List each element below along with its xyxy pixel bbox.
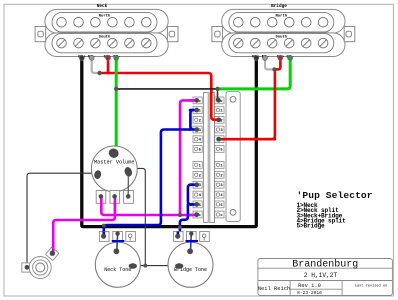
selector switch SW1: right pole terminal c row y214.5 [215,211,224,218]
pickup Neck: north bobbin [52,12,157,32]
pickup Bridge: terminal SF+ [278,56,283,61]
wire thin ground volume casing to tone casings [129,168,146,265]
svg-text:Neck Tone: Neck Tone [104,267,131,273]
node junction blue B over ground bus [178,225,182,229]
selector switch SW1: left pole terminal 2 row y174.8 [193,171,202,178]
wire bridge red SF+ drop [275,58,281,69]
pickup Neck: terminal SF+ [106,56,111,61]
node solder left lower O3 [194,182,199,187]
selector switch SW1: left pole terminal 3 row y184.7 [193,181,202,188]
svg-text:South: South [275,34,287,39]
pickup Bridge: cover [222,9,345,56]
node junction magenta M1/M2 [178,213,182,217]
wire neck gray NF- to series junction [92,58,100,73]
output jack J1: tip solder blob [50,251,55,256]
wire blue B switch O3-O5 jumper [188,185,197,205]
node solder left Cc top [194,98,199,103]
wire magenta overlay inside lug2 box [114,196,117,204]
wire magenta stub into switch bottom Cc [190,214,197,217]
title block: frame [258,259,393,296]
wire blue overlay into Bridge Tone lug1 [177,232,180,236]
wire bridge red hot to switch O4 [219,69,275,139]
selector switch SW1: left pole terminal 5 row y148.9 [193,146,202,153]
potentiometer Neck Tone: lug3 open hole [128,234,132,238]
potentiometer Master Volume: solder blob right (ground link) [123,166,133,177]
wire black jumper neck-green node to switch common [116,88,217,90]
wire blue stub into switch lower O3 [190,183,197,186]
pickup Bridge: terminal SS- [288,56,293,61]
pickup Bridge: north pole pieces [234,17,328,27]
selector switch SW1: left pole terminal 1 row y164.9 [193,162,202,169]
pickup Neck: north pole pieces [57,17,151,27]
pickup Neck: right mounting ear [167,27,178,42]
pickup Neck: terminal NF- [89,56,94,61]
pickup Neck: terminal SS- [114,56,119,61]
potentiometer Master Volume: lug2 terminal [112,194,117,199]
selector switch SW1: right pole terminal 1 row y110.1 [215,107,224,114]
potentiometer Neck Tone: casing ground blob [129,263,137,269]
capacitor on Neck Tone lug2 to casing [115,231,119,235]
svg-text:8-23-2016: 8-23-2016 [297,290,322,296]
node junction bridge coil series [272,67,276,71]
potentiometer Bridge Tone: lug3 open hole [202,234,206,238]
wire drop to switch Cc terminal [217,89,219,100]
selector switch SW1: wafer bars [204,93,215,223]
svg-text:Neil Reich: Neil Reich [258,286,290,292]
wire magenta M3 volume lug2 to output jack [53,196,115,253]
wire magenta M1 switch top Cc to bottom bus [180,100,197,215]
potentiometer Neck Tone: lug1 solder blob [101,234,106,239]
pickup Bridge: left mounting ear [212,27,223,42]
wire neck black NS+ ground to bus [82,58,256,227]
potentiometer Master Volume: lug1 terminal [99,194,104,199]
selector switch SW1: left pole terminal c row y100.4 [193,97,202,104]
wire blue A switch O1-O3 jumper to neck tone [190,110,196,129]
pickup Bridge: terminal NF- [263,56,268,61]
wire magenta stub into switch top Cc [190,99,197,102]
wire bridge green SS- to common bus [218,58,291,89]
pickup Neck: south bobbin [52,33,157,52]
selector switch SW1: left pole terminal 5 row y204.4 [193,201,202,208]
wire blue A to neck tone lug [104,130,191,236]
wire blue overlay into Neck Tone lug1 [103,232,106,236]
node solder left O1 [194,108,199,113]
svg-text:Brandenburg: Brandenburg [292,259,358,271]
wire red stub into switch O4 [219,138,275,141]
node junction neck green / black jumper [114,87,118,91]
potentiometer Bridge Tone: lug boxes [174,232,210,242]
selector switch SW1: left pole terminal c row y214.5 [193,211,202,218]
pickup Bridge: right mounting ear [344,27,355,42]
node solder right O2 [217,118,222,123]
wire bridge gray NF- to series junction [265,58,275,69]
wire neck green SS- to volume casing [115,58,118,153]
svg-text:2 H,1V,2T: 2 H,1V,2T [304,272,338,279]
svg-text:North: North [275,13,287,18]
selector switch SW1: right pole terminal 4 row y139.2 [215,136,224,143]
selector switch SW1: left pole terminal 4 row y139.2 [193,136,202,143]
wire magenta M2 volume lug1 to switch bottom Cc [101,196,196,215]
svg-text:5>Bridge: 5>Bridge [297,223,326,230]
node solder right Cc top [216,98,221,103]
wire thin ground between tone pot casings [133,265,177,267]
potentiometer Master Volume: lug3 to casing link [127,172,129,197]
potentiometer Bridge Tone: casing ground blob [175,263,183,269]
svg-text:Neck: Neck [97,4,108,9]
potentiometer Master Volume: lug3 terminal [126,194,131,199]
node solder left O3 [194,127,199,132]
selector switch SW1: mounting plate [226,92,240,222]
pickup Neck: terminal NS+ [79,56,84,61]
svg-text:South: South [99,34,111,39]
wire magenta overlay into jack tip lug [52,246,55,252]
potentiometer Master Volume: solder blob left (jack tip wire) [93,170,102,180]
node junction neck coil series [97,71,101,75]
selector switch SW1: left pole terminal 2 row y119.8 [193,116,202,123]
selector switch SW1: right pole terminal 5 row y148.9 [215,146,224,153]
node solder left lower O5 [194,202,199,207]
wire neck red hot to switch O2 [100,73,219,120]
wire magenta overlay inside lug1 box [100,196,103,204]
node junction switch common [215,87,219,91]
svg-text:'Pup Selector: 'Pup Selector [297,190,373,201]
svg-text:North: North [99,13,111,18]
wire red stub into switch O2 [211,92,219,120]
selector switch SW1: bottom mounting hole [230,210,236,216]
selector switch SW1: top mounting hole [230,96,236,102]
capacitor on Bridge Tone lug2 to casing [189,231,193,235]
node solder right O4 [217,137,222,142]
wire blue stub into switch O3 [190,128,197,131]
potentiometer Master Volume: solder blob green wire on casing [107,147,120,159]
pickup Bridge: terminal NS+ [254,56,259,61]
wire ground drop into switch right Cc [217,93,219,100]
wire blue B to bridge tone lug [180,204,188,234]
node junction ground at tone casing line [143,264,147,268]
selector switch SW1: right pole terminal 2 row y119.8 [215,116,224,123]
selector switch SW1: right pole terminal c row y100.4 [215,97,224,104]
potentiometer Neck Tone: body [95,242,140,287]
svg-text:Last revised on: Last revised on [355,284,387,289]
output jack J1: body rings [29,257,51,279]
wire blue stub into switch lower O5 [190,203,197,206]
svg-text:Rev 1.0: Rev 1.0 [298,283,321,289]
pickup Bridge: south screw poles [234,38,328,48]
selector switch SW1: right pole terminal 3 row y184.7 [215,181,224,188]
potentiometer Bridge Tone: lug1 solder blob [175,234,180,239]
potentiometer Neck Tone: lug boxes [99,232,135,242]
selector switch SW1: left pole terminal 4 row y194.6 [193,191,202,198]
output jack J1: tip lug tab [45,247,59,261]
svg-text:Bridge: Bridge [271,4,287,9]
selector switch SW1: right pole terminal 2 row y174.8 [215,171,224,178]
pickup Neck: cover [45,9,168,56]
output jack J1: sleeve lug tab [22,263,32,272]
wire blue stub into switch O1 [190,109,197,112]
selector switch SW1: right pole terminal 4 row y194.6 [215,191,224,198]
wire thin wire jack tip to volume lug [27,173,96,267]
selector switch SW1: right pole terminal 1 row y164.9 [215,162,224,169]
pickup Neck: south screw poles [57,38,151,48]
selector switch SW1: left pole terminal 1 row y110.1 [193,107,202,114]
potentiometer Bridge Tone: body [168,242,213,287]
node junction blue A over ground bus [102,224,106,228]
pickup Bridge: north bobbin [229,12,334,32]
output jack J1: sleeve solder blob [25,265,30,270]
pickup Bridge: south bobbin [229,33,334,52]
node solder left Cc bottom [194,213,199,218]
selector switch SW1: right pole terminal 5 row y204.4 [215,201,224,208]
potentiometer Master Volume: lug boxes [96,191,133,204]
selector switch SW1: right pole terminal 3 row y129.5 [215,126,224,133]
svg-text:Master Volume: Master Volume [94,159,134,165]
wire neck red SF+ drop [107,58,110,73]
potentiometer Master Volume: body [91,146,137,192]
pickup Neck: left mounting ear [35,27,46,42]
annotation: Pup Selector legend items [297,202,347,230]
selector switch SW1: left pole terminal 3 row y129.5 [193,126,202,133]
